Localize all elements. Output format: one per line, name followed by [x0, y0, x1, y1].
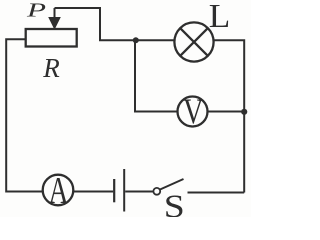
wire: main top wire junction to lamp: [135, 39, 175, 41]
svg-text:V: V: [183, 91, 204, 131]
switch S: [153, 179, 183, 195]
node junction top (dot): [133, 37, 139, 43]
lamp L: [174, 22, 213, 61]
wire: voltmeter right to right vertical: [208, 111, 245, 113]
voltmeter V: [178, 97, 208, 127]
wire: switch to bottom-right corner: [188, 192, 245, 194]
svg-text:P: P: [25, 0, 46, 22]
resistor R (rheostat box): [26, 29, 77, 47]
wire: slider P top wire to right then down: [55, 8, 136, 40]
svg-text:R: R: [42, 53, 60, 83]
wire: rheostat left stub: [6, 39, 43, 191]
battery (cell): [114, 169, 124, 212]
svg-text:A: A: [49, 170, 69, 212]
wire: lamp to top-right corner and right vertical down: [214, 40, 245, 192]
svg-text:L: L: [209, 0, 231, 35]
ammeter A: [43, 175, 74, 206]
node junction right (dot): [241, 109, 247, 115]
wire: ammeter to battery: [73, 191, 113, 193]
svg-text:S: S: [164, 189, 185, 217]
wire: voltmeter branch vertical from junction down: [135, 40, 178, 111]
slider P arrow: [49, 8, 60, 29]
wire: battery to switch: [125, 191, 153, 193]
